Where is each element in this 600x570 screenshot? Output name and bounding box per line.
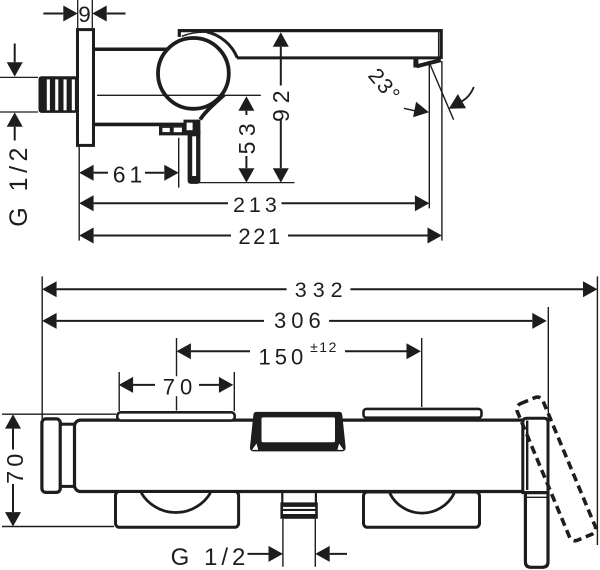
handle (side view) bbox=[188, 130, 201, 184]
handle dashed raised position bbox=[515, 395, 598, 542]
body cylinder top edge bbox=[92, 48, 200, 52]
G 1/2 outlet thread bbox=[280, 502, 317, 518]
svg-text:332: 332 bbox=[295, 278, 349, 302]
svg-text:221: 221 bbox=[238, 224, 282, 249]
svg-text:213: 213 bbox=[233, 193, 281, 217]
threaded inlet pipe G1/2 bbox=[39, 76, 79, 113]
body mid reference line bbox=[97, 94, 261, 96]
dim 92 bbox=[268, 32, 294, 182]
wall plate bbox=[78, 30, 94, 146]
svg-text:9: 9 bbox=[78, 2, 91, 27]
dim 61 bbox=[79, 162, 179, 188]
right connection arc bbox=[390, 493, 454, 513]
dim 53 bbox=[234, 96, 260, 182]
escutcheon neck bbox=[60, 424, 74, 486]
ribbed underside detail / lever hub bbox=[159, 120, 200, 136]
body/cap joint double line bbox=[526, 421, 528, 491]
spout top edge, left step and tip edge bbox=[179, 31, 441, 59]
left lower housing bbox=[116, 492, 239, 528]
label G 1/2 bottom bbox=[171, 544, 347, 570]
svg-text:G 1/2: G 1/2 bbox=[171, 544, 250, 570]
left escutcheon bbox=[42, 419, 60, 493]
dim 9 bbox=[43, 0, 125, 28]
body bottom edge bbox=[92, 123, 192, 127]
cartridge housing outer arc bbox=[207, 32, 238, 58]
dim G 1/2 inlet bbox=[0, 44, 38, 227]
right lower housing bbox=[364, 492, 480, 527]
right flange plate bbox=[364, 409, 482, 418]
dim 332 bbox=[42, 276, 597, 545]
svg-text:70: 70 bbox=[163, 375, 197, 400]
svg-text:53: 53 bbox=[234, 118, 260, 155]
cap bottom thin line bbox=[182, 32, 207, 36]
svg-text:±12: ±12 bbox=[310, 339, 338, 355]
svg-text:61: 61 bbox=[113, 162, 147, 188]
dim 150 +-12 bbox=[177, 338, 422, 411]
svg-text:306: 306 bbox=[274, 308, 326, 333]
svg-text:70: 70 bbox=[2, 450, 28, 484]
spout outlet nib bbox=[413, 59, 418, 68]
left connection arc bbox=[141, 493, 210, 513]
dim 70 horizontal bbox=[119, 372, 235, 411]
main body bar bbox=[75, 420, 528, 491]
svg-text:92: 92 bbox=[268, 84, 294, 122]
fillet curve circle to handle bbox=[200, 95, 224, 120]
dim 221 bbox=[79, 61, 442, 249]
dim 213 bbox=[79, 62, 429, 217]
lever (down position) bbox=[525, 493, 548, 568]
control knob circle bbox=[158, 38, 229, 109]
G 1/2 outlet neck bbox=[281, 492, 283, 504]
center cap bbox=[250, 412, 346, 452]
ext line right of handle bottom bbox=[199, 182, 295, 184]
ext line below wall plate bbox=[78, 147, 80, 241]
spout bottom edge bbox=[237, 56, 441, 59]
valve end cap bbox=[523, 418, 548, 492]
svg-text:150: 150 bbox=[259, 344, 308, 369]
left flange plate bbox=[117, 412, 234, 420]
outlet pipe below bbox=[282, 519, 284, 567]
lever joint line bbox=[527, 496, 548, 498]
svg-text:G 1/2: G 1/2 bbox=[5, 143, 33, 227]
dim 70 vertical bbox=[2, 414, 116, 526]
dim 306 bbox=[42, 307, 548, 418]
spout tip inner line bbox=[438, 32, 440, 57]
dim 23 deg bbox=[363, 61, 474, 120]
ext line below handle lever bbox=[178, 138, 180, 188]
